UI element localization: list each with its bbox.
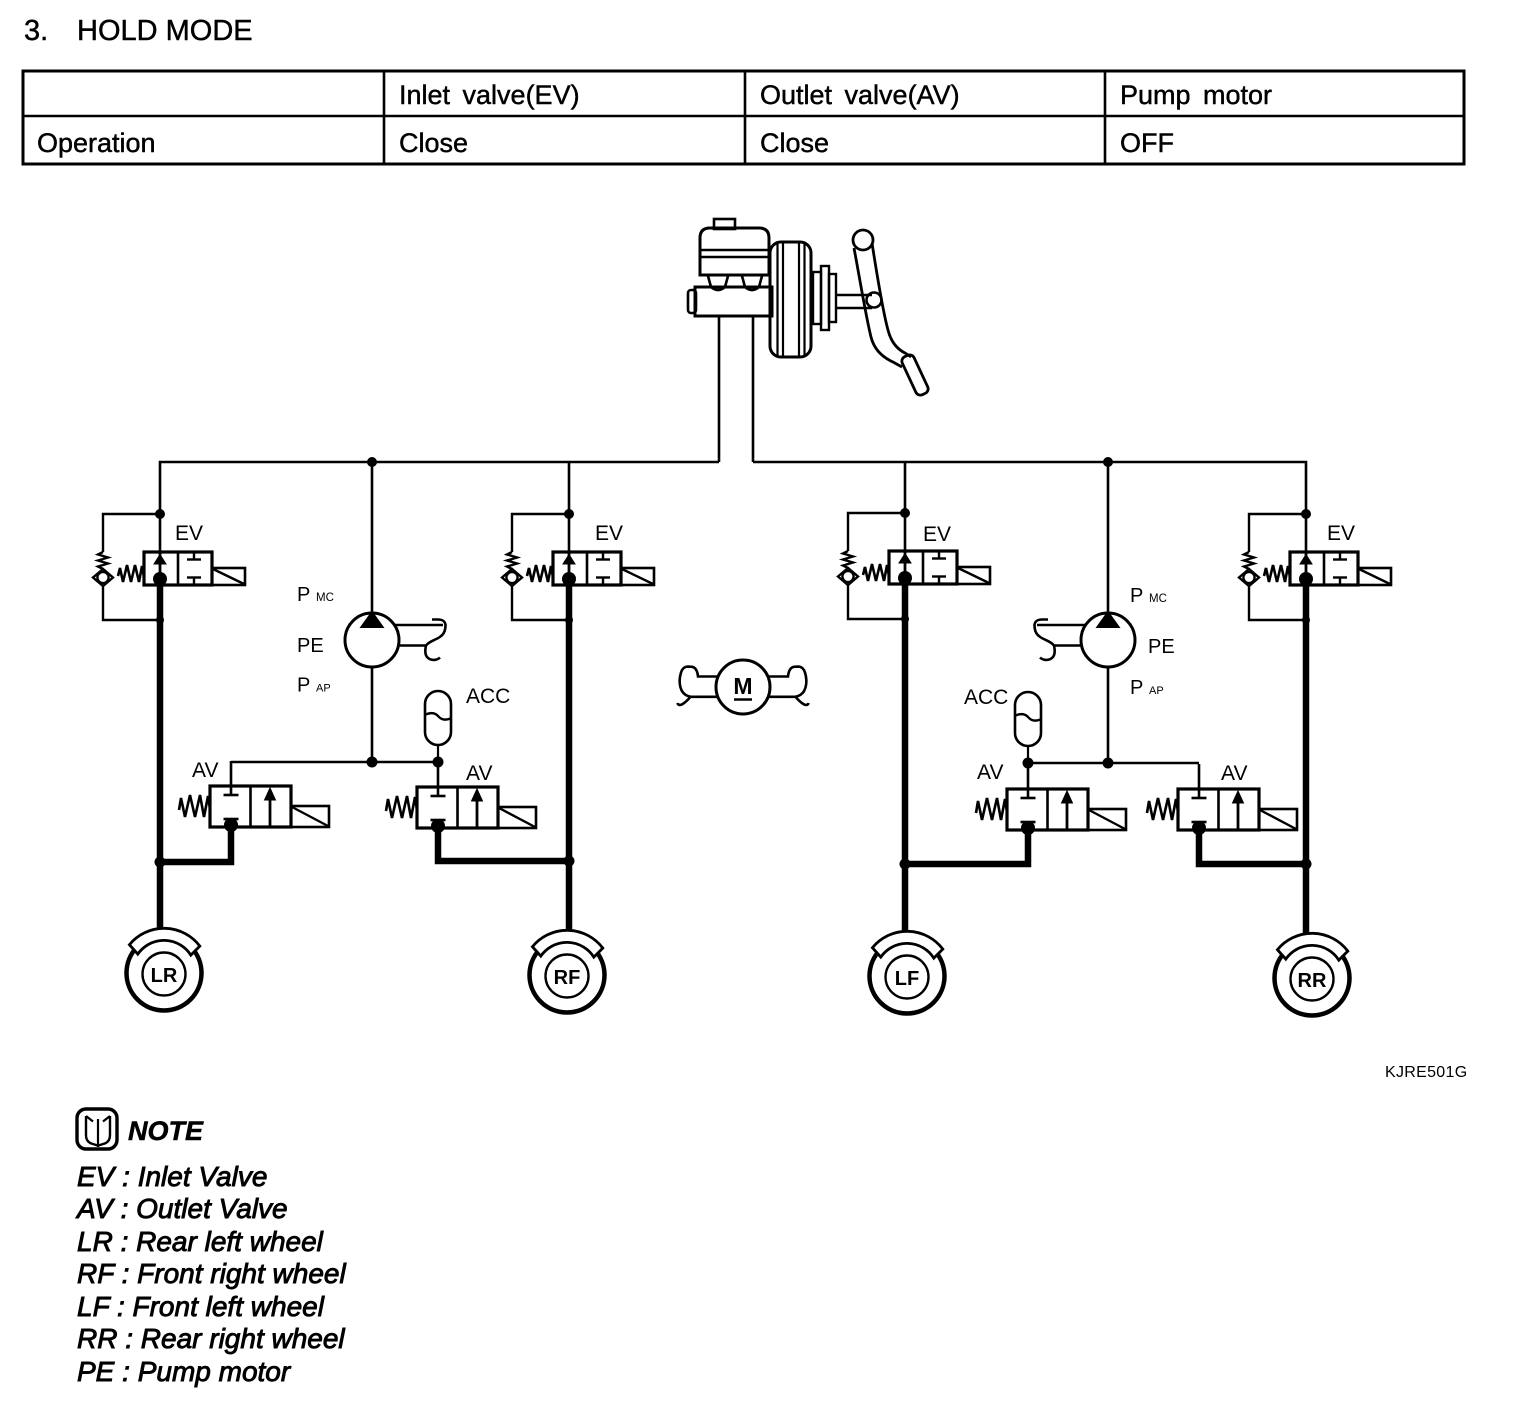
svg-text:PE : Pump motor: PE : Pump motor (77, 1356, 292, 1387)
cylinder end cap (688, 290, 696, 313)
reservoir outlet port left (708, 276, 728, 290)
node: right pump to rail (1103, 758, 1114, 769)
reservoir outlet port right (742, 276, 762, 290)
svg-text:PE: PE (1148, 636, 1175, 658)
svg-text:MC: MC (316, 592, 334, 604)
wire: RF wheel thick line (566, 578, 573, 937)
node: AV3 return junction (900, 859, 911, 870)
wire: right supply bus (753, 462, 1306, 552)
wheel LR (127, 928, 202, 1010)
pump PE left (345, 613, 399, 667)
inlet valve EV4 (1264, 552, 1391, 586)
pedal arm (854, 248, 902, 367)
node: left pump to rail (367, 757, 378, 768)
svg-text:EV : Inlet Valve: EV : Inlet Valve (77, 1161, 267, 1192)
brake booster shell (770, 242, 811, 357)
svg-text:MC: MC (1149, 593, 1167, 605)
outlet pipe left (718, 316, 721, 462)
wire: left pump feed drop (371, 462, 374, 614)
node: AV1 return junction (155, 857, 166, 868)
EV1 bypass check valve and spring (93, 509, 165, 624)
push rod (836, 294, 872, 296)
node: left ACC to rail (433, 757, 444, 768)
svg-text:AV: AV (466, 762, 492, 785)
wire: AV2 return to RF line (438, 828, 569, 861)
svg-text:EV: EV (595, 522, 623, 545)
EV3 bypass check valve and spring (838, 508, 910, 623)
fluid reservoir (700, 228, 769, 275)
reservoir cap (714, 219, 735, 229)
svg-text:AP: AP (1149, 685, 1164, 697)
pump right coupling claw (1035, 620, 1087, 660)
svg-text:PE: PE (297, 635, 324, 657)
master cylinder body (695, 287, 772, 316)
wire: LF branch drop (904, 462, 907, 551)
svg-text:RF: RF (554, 967, 581, 989)
svg-text:EV: EV (1327, 522, 1355, 545)
svg-text:AV: AV (192, 759, 218, 782)
wire: AV3 return to LF line (905, 830, 1028, 864)
node: AV2 return junction (564, 856, 575, 867)
pump PE right (1081, 613, 1135, 667)
inlet valve EV3 (863, 551, 990, 585)
svg-text:ACC: ACC (964, 686, 1008, 709)
svg-text:EV: EV (175, 522, 203, 545)
inlet valve EV2 (527, 552, 654, 586)
svg-text:AV: AV (977, 761, 1003, 784)
svg-text:Close: Close (760, 128, 829, 158)
accumulator ACC right (1015, 692, 1041, 746)
svg-text:AV: AV (1221, 762, 1247, 785)
svg-text:RF : Front right wheel: RF : Front right wheel (77, 1258, 346, 1289)
wheel LF (870, 931, 945, 1013)
svg-text:EV: EV (923, 523, 951, 546)
svg-text:ACC: ACC (466, 685, 510, 708)
wire: RF branch drop (568, 462, 571, 552)
svg-text:LR: LR (151, 965, 178, 987)
svg-text:KJRE501G: KJRE501G (1385, 1064, 1467, 1081)
node: right ACC to rail (1023, 758, 1034, 769)
svg-text:HOLD MODE: HOLD MODE (77, 15, 253, 47)
booster hub rings (813, 272, 821, 324)
svg-text:Outlet valve(AV): Outlet valve(AV) (760, 80, 960, 110)
svg-text:LF: LF (895, 968, 919, 990)
wire: RR wheel thick line (1303, 578, 1310, 940)
svg-text:Pump motor: Pump motor (1120, 80, 1272, 110)
wire: AV4 return to RR line (1199, 830, 1306, 864)
wire: left supply bus (160, 462, 719, 552)
table grid (23, 71, 1464, 164)
svg-text:AV : Outlet Valve: AV : Outlet Valve (75, 1193, 288, 1224)
pedal pivot (853, 230, 873, 250)
svg-text:OFF: OFF (1120, 128, 1174, 158)
accumulator ACC left (425, 691, 451, 745)
pedal rod joint (867, 293, 882, 308)
wire: LR wheel thick line (157, 578, 164, 935)
inlet valve EV1 (118, 552, 245, 586)
outlet valve AV2 (386, 762, 536, 833)
node: AV4 return junction (1301, 859, 1312, 870)
wire: LF wheel thick line (902, 578, 909, 938)
svg-text:NOTE: NOTE (128, 1116, 204, 1146)
wire: right AV feed rail (1028, 762, 1199, 764)
wire: left pump outlet (371, 666, 374, 762)
wire: ACC left stem (437, 745, 439, 762)
motor M (716, 660, 770, 714)
note icon book glyph (86, 1116, 110, 1147)
svg-text:RR : Rear right wheel: RR : Rear right wheel (77, 1323, 345, 1354)
svg-text:Operation: Operation (37, 128, 156, 158)
outlet pipe right (752, 316, 755, 462)
EV4 bypass check valve and spring (1239, 509, 1311, 624)
pedal pad (900, 353, 930, 397)
svg-text:RR: RR (1298, 970, 1327, 992)
svg-text:P: P (1130, 677, 1143, 699)
svg-text:LR : Rear left wheel: LR : Rear left wheel (77, 1226, 324, 1257)
wire: left AV feed rail (231, 761, 438, 763)
svg-text:P: P (1130, 585, 1143, 607)
wire: right pump outlet (1107, 666, 1110, 763)
EV2 bypass check valve and spring (502, 509, 574, 624)
outlet valve AV1 (179, 761, 329, 832)
outlet valve AV3 (976, 764, 1126, 835)
pump left coupling claw (394, 620, 446, 660)
svg-text:P: P (297, 584, 310, 606)
svg-text:P: P (297, 675, 310, 697)
svg-text:Close: Close (399, 128, 468, 158)
node: left pump bus junction (367, 457, 377, 467)
wheel RF (530, 930, 605, 1012)
wire: AV1 return to LR line (160, 827, 231, 862)
wire: right pump feed drop (1107, 462, 1110, 614)
motor right coupling claw (769, 667, 809, 705)
svg-text:M: M (733, 673, 752, 699)
outlet valve AV4 (1147, 764, 1297, 835)
node: right pump bus junction (1103, 457, 1113, 467)
wire: ACC right stem (1027, 746, 1029, 763)
svg-text:AP: AP (316, 683, 331, 695)
motor left coupling claw (678, 667, 718, 705)
svg-text:LF : Front left wheel: LF : Front left wheel (77, 1291, 325, 1322)
svg-text:Inlet valve(EV): Inlet valve(EV) (399, 80, 580, 110)
wheel RR (1275, 933, 1350, 1015)
note icon box (77, 1109, 117, 1149)
svg-text:3.: 3. (24, 15, 48, 47)
